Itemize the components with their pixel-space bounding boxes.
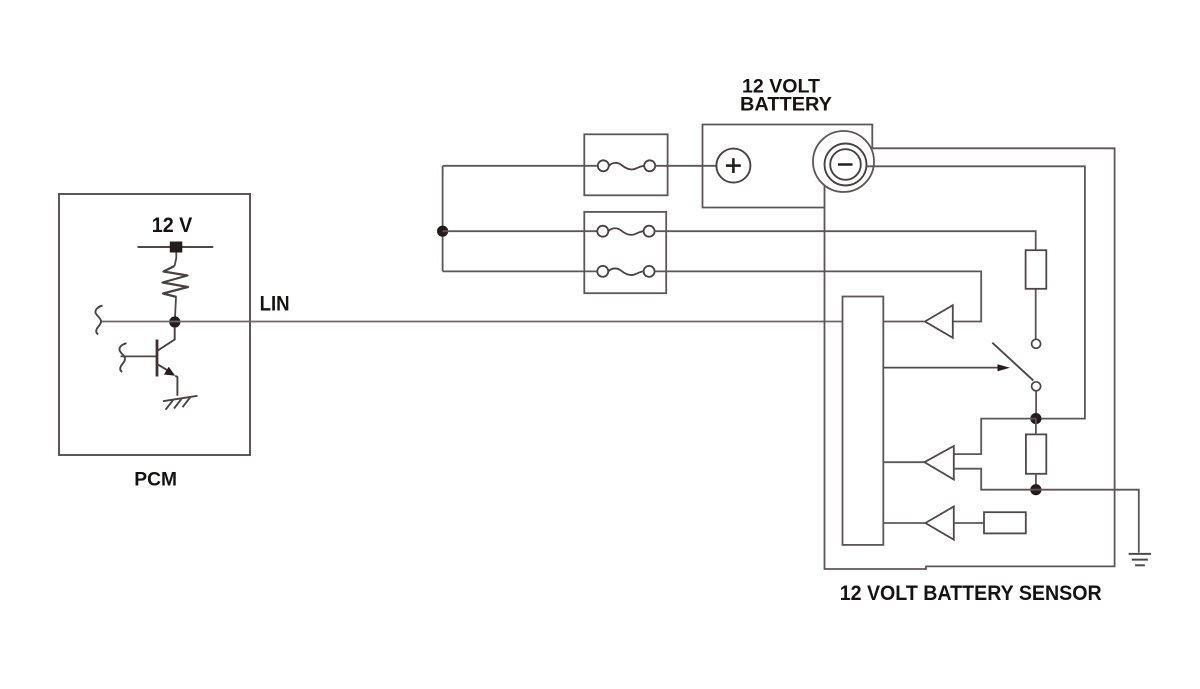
node LIN junction dot <box>169 316 180 327</box>
wire resistor to LIN node <box>175 297 176 322</box>
switch lower contact <box>1032 382 1041 391</box>
wire feeder to fuse F3 <box>443 270 598 272</box>
fuse F1 <box>598 160 655 171</box>
wire feeder to fuse F2 <box>443 230 598 232</box>
battery box <box>703 125 873 208</box>
wire node A to amp U2 upper input <box>954 419 1036 455</box>
node B junction dot <box>1030 484 1041 495</box>
wire node B to ground <box>1036 490 1139 553</box>
wire emitter to ground <box>175 376 177 396</box>
transistor Q1 base bar <box>156 340 159 377</box>
svg-text:LIN: LIN <box>260 292 290 315</box>
wire fuse F2 to resistor R2 top <box>655 231 1036 250</box>
wire feeder vertical <box>442 166 444 272</box>
battery - terminal (outer ring) <box>813 131 874 192</box>
node A junction dot <box>1030 413 1041 424</box>
wire inner loop from - terminal <box>866 166 1085 418</box>
fuse box F1 <box>584 134 667 195</box>
resistor R2 <box>1026 250 1047 289</box>
wire-break squiggle at transistor base <box>119 343 126 372</box>
12V supply terminal square <box>170 242 183 253</box>
op-amp U3 (temp buffer triangle) <box>925 507 953 540</box>
wire base <box>121 355 157 357</box>
resistor R1 (zigzag) <box>163 266 189 297</box>
fuse F3 <box>597 266 654 277</box>
transistor Q1 collector <box>157 327 174 351</box>
wire IC to amp U2 <box>883 461 924 463</box>
thermistor block <box>984 512 1026 533</box>
wire square to resistor <box>175 253 177 267</box>
op-amp U2 (shunt amp triangle) <box>924 446 953 480</box>
svg-text:PCM: PCM <box>134 468 177 490</box>
wire resistor R3 to node B <box>1035 474 1037 490</box>
PCM box <box>59 194 250 455</box>
battery + terminal <box>716 149 750 183</box>
svg-text:12 V: 12 V <box>152 214 193 237</box>
wire switch lower contact to node A <box>1035 391 1037 419</box>
IC U0 (tall rectangle) <box>843 297 884 545</box>
svg-text:12 VOLT BATTERY SENSOR: 12 VOLT BATTERY SENSOR <box>840 581 1102 605</box>
ground (chassis) in PCM <box>163 396 198 410</box>
wire fuse F3 to buffer U1 loop <box>655 271 982 321</box>
wire fuse F1 to battery + <box>655 165 716 167</box>
wire amp U3 to thermistor block <box>954 522 984 524</box>
resistor R3 (shunt) <box>1026 434 1046 473</box>
switch upper contact <box>1032 339 1041 348</box>
wire IC switch-control with arrow <box>883 367 999 369</box>
op-amp U1 (LIN buffer triangle) <box>925 305 953 338</box>
minus sign <box>838 163 853 166</box>
wire IC to amp U3 <box>883 522 925 524</box>
fuse F2 <box>597 226 654 237</box>
wire resistor R2 to switch upper contact <box>1035 289 1037 339</box>
wire amp U2 lower input to node B <box>954 469 1036 490</box>
switch blade <box>992 343 1033 381</box>
wire LIN (PCM to sensor IC) <box>101 321 844 323</box>
wire feeder to fuse F1 <box>443 165 598 167</box>
wire node A to resistor R3 <box>1035 419 1037 435</box>
battery - terminal (middle ring) <box>825 144 867 186</box>
sensor box outline (wire loop from - terminal) <box>825 148 1115 569</box>
svg-text:BATTERY: BATTERY <box>740 94 832 116</box>
node feeder junction dot <box>437 226 448 237</box>
ground (earth) at sensor <box>1129 554 1151 565</box>
transistor Q1 emitter with arrow <box>157 364 169 371</box>
12V supply rail <box>138 246 214 248</box>
wire IC to buffer U1 <box>883 321 924 323</box>
fuse box F2/F3 <box>584 212 666 293</box>
battery - terminal (inner circle) <box>830 149 861 180</box>
wire-break squiggle at LIN <box>95 306 102 335</box>
